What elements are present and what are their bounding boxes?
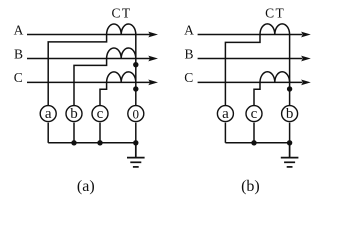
wire CT-A secondary to ammeter a (b)	[225, 35, 260, 106]
wire common bus to ammeter b (b)	[289, 35, 291, 106]
wire ammeter a to bottom bus (b)	[224, 123, 226, 143]
svg-text:c: c	[251, 106, 258, 122]
ammeter c	[92, 106, 108, 122]
ammeter b (b)	[282, 106, 298, 122]
ammeter c (b)	[246, 106, 262, 122]
junction b bottom	[71, 140, 76, 145]
wire ammeter 0 to bottom bus	[135, 123, 137, 143]
arrow C	[148, 80, 158, 86]
svg-text:CT: CT	[265, 5, 285, 20]
wire phase A line	[27, 34, 150, 36]
junction c bottom (b)	[251, 140, 256, 145]
ammeter a	[40, 106, 56, 122]
CT winding phase C (b)	[260, 72, 290, 83]
wire CT-A secondary to ammeter a	[48, 35, 106, 106]
svg-text:C: C	[14, 70, 23, 85]
node C label (b)	[184, 70, 193, 85]
arrow B	[148, 56, 158, 62]
wire bottom bus (a)	[48, 142, 136, 144]
junction b bottom (b)	[287, 140, 292, 145]
wire common bus to ammeter 0	[135, 35, 137, 106]
arrow B (b)	[301, 56, 311, 62]
caption (b)	[241, 178, 260, 195]
svg-text:B: B	[184, 46, 193, 61]
junction B secondary to bus	[133, 62, 138, 67]
wire CT-C secondary to ammeter c	[100, 82, 107, 105]
svg-text:0: 0	[133, 107, 140, 122]
svg-text:(b): (b)	[241, 178, 260, 195]
ground (a)	[127, 143, 145, 167]
CT winding phase A	[107, 24, 136, 35]
wire ammeter a to bottom bus	[47, 123, 49, 143]
wire phase A line (b)	[198, 34, 302, 36]
wire ammeter b to bottom bus (b)	[289, 123, 291, 143]
svg-text:b: b	[286, 106, 294, 122]
svg-text:CT: CT	[111, 5, 131, 20]
wire ammeter c to bottom bus (b)	[253, 123, 255, 143]
wire CT-C secondary to ammeter c (b)	[254, 82, 260, 105]
node B label (b)	[184, 46, 193, 61]
wire ammeter b to bottom bus	[73, 123, 75, 143]
junction C secondary to bus	[133, 86, 138, 91]
svg-text:a: a	[45, 106, 52, 122]
svg-text:c: c	[97, 106, 104, 122]
junction C secondary to bus (b)	[287, 86, 292, 91]
svg-text:b: b	[70, 106, 78, 122]
svg-text:A: A	[14, 22, 24, 37]
wire phase C line	[27, 81, 150, 83]
junction c bottom	[97, 140, 102, 145]
wire phase B line (b)	[198, 58, 302, 60]
svg-text:C: C	[184, 70, 193, 85]
node C label	[14, 70, 23, 85]
wire CT-B secondary to ammeter b	[74, 59, 107, 106]
CT winding phase A (b)	[260, 24, 290, 35]
svg-text:(a): (a)	[77, 178, 95, 195]
svg-text:A: A	[184, 22, 194, 37]
CT label (a)	[111, 5, 131, 20]
arrow A (b)	[301, 32, 311, 38]
junction 0 bottom	[133, 140, 138, 145]
CT label (b)	[265, 5, 285, 20]
node B label	[14, 46, 23, 61]
ammeter 0	[128, 106, 144, 122]
node A label	[14, 22, 24, 37]
ammeter a (b)	[217, 106, 233, 122]
arrow A	[148, 32, 158, 38]
node A label (b)	[184, 22, 194, 37]
arrow C (b)	[301, 80, 311, 86]
wire phase C line (b)	[198, 81, 302, 83]
wire bottom bus (b)	[225, 142, 289, 144]
wire ammeter c to bottom bus	[99, 123, 101, 143]
ground (b)	[281, 143, 299, 167]
caption (a)	[77, 178, 95, 195]
svg-text:a: a	[222, 106, 229, 122]
CT winding phase C	[107, 72, 136, 83]
CT winding phase B	[107, 48, 136, 59]
ammeter b	[66, 106, 82, 122]
svg-text:B: B	[14, 46, 23, 61]
wire phase B line	[27, 58, 150, 60]
